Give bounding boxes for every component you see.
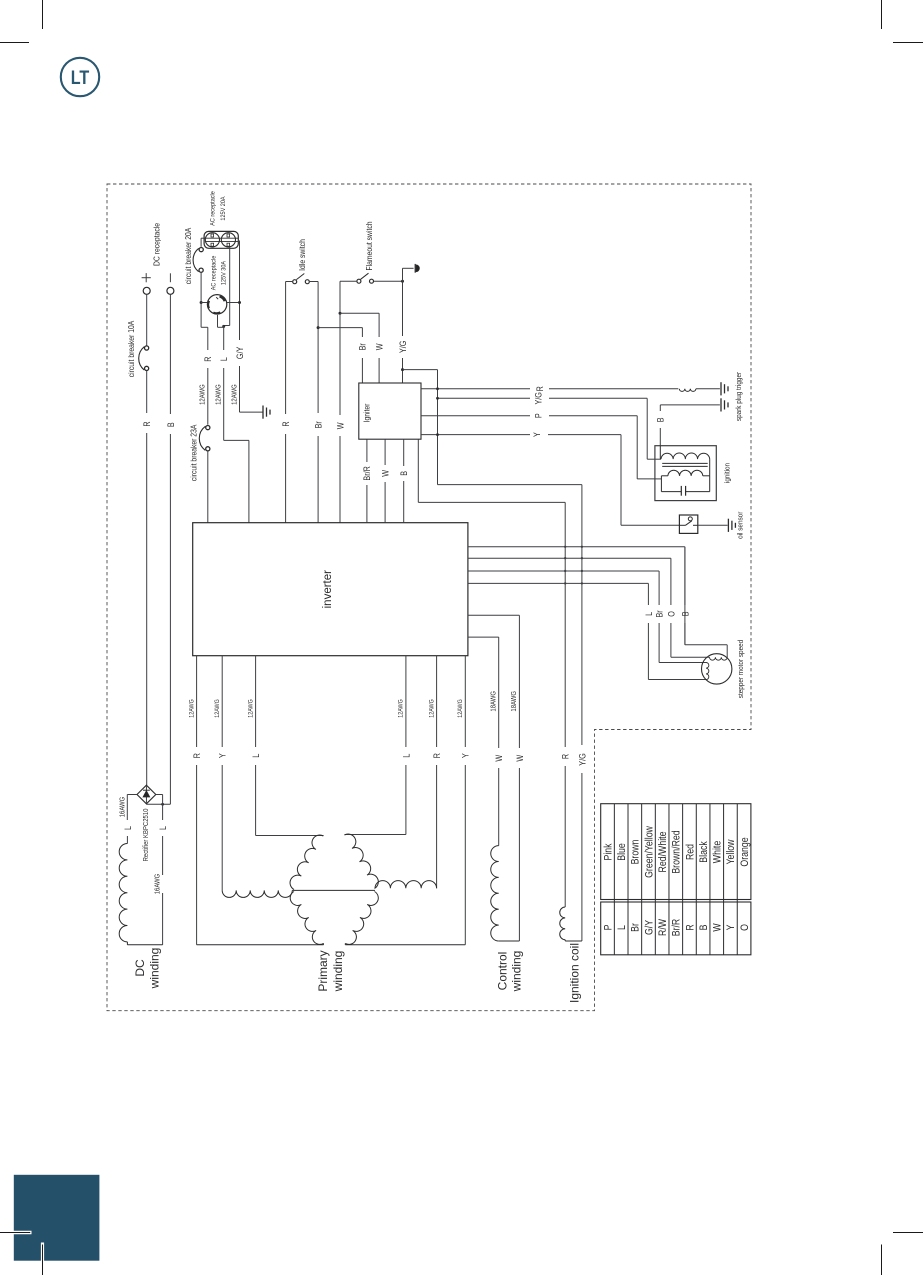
svg-text:B: B bbox=[166, 422, 176, 427]
wire Y: inverter to primary bus right bbox=[464, 656, 466, 699]
svg-text:R: R bbox=[192, 753, 202, 758]
minus terminal mark bbox=[169, 273, 171, 282]
wire BrR: igniter to inverter bbox=[366, 439, 368, 462]
svg-text:B: B bbox=[698, 925, 710, 931]
primary winding LL coil bbox=[290, 892, 323, 945]
spark plug trigger ground 2 bbox=[720, 398, 722, 411]
DC receptacle terminal R bbox=[143, 287, 150, 294]
wire R: inverter to primary right coil bbox=[436, 656, 438, 699]
crossing dots ignition wires bbox=[564, 546, 566, 548]
earth ground GY bbox=[262, 406, 264, 419]
wire B to stepper bbox=[468, 546, 685, 548]
wire B stepper label bbox=[684, 547, 686, 605]
svg-text:Red/White: Red/White bbox=[657, 832, 669, 873]
svg-text:Y: Y bbox=[461, 753, 471, 758]
svg-text:R: R bbox=[203, 356, 213, 361]
svg-text:L: L bbox=[158, 826, 168, 830]
wire: twist lock left terminal bbox=[201, 302, 207, 304]
svg-text:R: R bbox=[535, 386, 545, 391]
wire W: igniter to inverter bbox=[384, 439, 386, 465]
circuit breaker 20A bbox=[199, 248, 203, 252]
svg-text:circuit breaker 10A: circuit breaker 10A bbox=[127, 321, 137, 378]
circuit breaker 23A bbox=[206, 426, 210, 430]
svg-text:12AWG: 12AWG bbox=[199, 384, 207, 405]
svg-text:L: L bbox=[123, 826, 133, 830]
LT logo bbox=[61, 58, 99, 96]
wire R ignition-coil feed from igniter bottom bbox=[417, 439, 419, 502]
wire YG: to ignition transformer bbox=[438, 397, 531, 399]
wire W left: inverter to control winding bbox=[468, 636, 499, 638]
svg-text:Ignition coil: Ignition coil bbox=[567, 943, 581, 1003]
svg-text:L: L bbox=[219, 357, 229, 361]
wire R: inverter to primary bus left bbox=[196, 656, 198, 699]
primary bus left bbox=[197, 944, 324, 946]
primary winding center link bbox=[292, 889, 375, 891]
wire: duplex right outlet down to L bbox=[229, 248, 231, 326]
wire R: to ignition coil bbox=[564, 502, 566, 747]
svg-text:G/Y: G/Y bbox=[235, 346, 245, 359]
AC twist-lock receptacle 125V 30A bbox=[207, 295, 226, 314]
wire L: inverter to primary UL coil bbox=[255, 656, 257, 699]
svg-text:W: W bbox=[495, 754, 505, 761]
svg-text:R: R bbox=[561, 754, 571, 759]
svg-text:P: P bbox=[534, 413, 544, 418]
ignition capacitor bbox=[661, 491, 681, 493]
svg-text:Black: Black bbox=[698, 841, 710, 863]
rectifier KBPC2510 bbox=[137, 785, 156, 804]
svg-text:Pink: Pink bbox=[603, 843, 615, 860]
primary winding LR coil bbox=[345, 892, 378, 945]
wire L to stepper bbox=[468, 582, 649, 584]
primary winding right coil bbox=[375, 881, 437, 889]
svg-text:12AWG: 12AWG bbox=[215, 699, 222, 718]
svg-text:Primary: Primary bbox=[316, 950, 330, 991]
svg-text:Y: Y bbox=[725, 924, 737, 930]
svg-text:W: W bbox=[515, 754, 525, 761]
svg-text:12AWG: 12AWG bbox=[429, 699, 436, 718]
svg-text:B: B bbox=[656, 417, 666, 422]
crop mark top-right bbox=[881, 0, 883, 29]
inverter U2 bbox=[193, 523, 468, 656]
svg-text:AC receptacle: AC receptacle bbox=[211, 255, 217, 290]
svg-text:L: L bbox=[251, 753, 261, 757]
wire Br: idle switch right to inverter bbox=[310, 281, 318, 283]
ignition coil bbox=[560, 907, 565, 940]
svg-text:12AWG: 12AWG bbox=[215, 384, 223, 405]
spark plug trigger ground 1 bbox=[720, 382, 722, 395]
svg-text:winding: winding bbox=[510, 951, 524, 993]
wire L: inverter to primary UR coil bbox=[405, 656, 407, 699]
wire W right: inverter to control winding bbox=[468, 614, 520, 616]
control winding coil bbox=[491, 846, 499, 941]
wire: rectifier left vertex to DC winding left bbox=[127, 794, 137, 796]
svg-text:18AWG: 18AWG bbox=[511, 691, 519, 712]
svg-text:Yellow: Yellow bbox=[725, 839, 737, 865]
chassis ground bbox=[402, 268, 404, 281]
svg-text:winding: winding bbox=[331, 951, 345, 993]
svg-text:125V 20A: 125V 20A bbox=[221, 196, 227, 220]
svg-text:12AWG: 12AWG bbox=[189, 699, 196, 718]
svg-text:Rectifier KBPC2510: Rectifier KBPC2510 bbox=[143, 808, 151, 861]
wire: rectifier right vertex to DC winding right bbox=[156, 794, 163, 796]
svg-text:Y/G: Y/G bbox=[578, 753, 588, 765]
wire YG: to ignition coil bbox=[581, 485, 583, 745]
DC winding bottom link bbox=[127, 944, 162, 946]
wire R: igniter to spark plug trigger bbox=[421, 388, 530, 390]
blue corner square bbox=[14, 1175, 100, 1261]
svg-text:Br/R: Br/R bbox=[363, 466, 373, 481]
svg-text:O: O bbox=[739, 924, 751, 931]
svg-text:circuit breaker 23A: circuit breaker 23A bbox=[189, 425, 199, 482]
svg-text:B: B bbox=[399, 471, 409, 476]
svg-text:L: L bbox=[402, 753, 412, 757]
svg-text:LT: LT bbox=[71, 67, 90, 89]
svg-text:Br: Br bbox=[655, 610, 665, 617]
DC winding coil bbox=[119, 844, 127, 942]
primary winding UR coil bbox=[345, 834, 379, 888]
svg-text:Green/Yellow: Green/Yellow bbox=[644, 825, 656, 878]
wire R: DC + terminal to breaker 10A bbox=[146, 294, 148, 346]
wire: DC winding right bbox=[162, 795, 164, 821]
AC duplex receptacle 125V 20A bbox=[204, 231, 238, 248]
svg-text:125V 30A: 125V 30A bbox=[221, 261, 227, 285]
primary bus right bbox=[345, 944, 465, 946]
svg-text:18AWG: 18AWG bbox=[490, 691, 498, 712]
svg-text:spark plug trigger: spark plug trigger bbox=[736, 371, 744, 421]
ignition core bbox=[662, 462, 708, 464]
svg-text:12AWG: 12AWG bbox=[231, 384, 239, 405]
wire: flameout right to chassis ground junction bbox=[374, 280, 403, 282]
spark plug trigger inductor bbox=[679, 389, 696, 392]
wire B: igniter to inverter bbox=[403, 439, 405, 466]
svg-text:R: R bbox=[281, 421, 291, 426]
wire R: breaker 23A to inverter bbox=[207, 451, 209, 522]
svg-text:Br: Br bbox=[314, 421, 324, 428]
igniter U1 bbox=[359, 383, 421, 439]
svg-text:W: W bbox=[712, 923, 724, 932]
svg-text:Y/G: Y/G bbox=[534, 392, 544, 404]
svg-text:R: R bbox=[685, 924, 697, 930]
svg-text:16AWG: 16AWG bbox=[119, 797, 127, 818]
wire: breaker 20A to duplex receptacle bbox=[200, 238, 202, 247]
wire R jog below breaker 20A bbox=[201, 326, 208, 328]
oil sensor bbox=[679, 515, 697, 533]
svg-text:L: L bbox=[644, 611, 654, 615]
svg-text:Brown/Red: Brown/Red bbox=[671, 830, 683, 873]
wire GY: duplex to ground bbox=[239, 241, 241, 341]
svg-text:Br: Br bbox=[358, 343, 368, 350]
dashed diagram border bbox=[107, 184, 751, 1011]
svg-text:DC receptacle: DC receptacle bbox=[152, 223, 162, 266]
wire B: DC - terminal to rectifier, label B bbox=[169, 294, 171, 414]
svg-text:W: W bbox=[375, 343, 385, 350]
svg-text:G/Y: G/Y bbox=[644, 920, 656, 936]
oil sensor ground bbox=[698, 524, 728, 526]
svg-text:DC: DC bbox=[133, 959, 147, 977]
wire B: ignition coil to spark plug ground bbox=[659, 428, 661, 446]
idle switch bbox=[293, 280, 297, 284]
wire W: flameout left to inverter bbox=[340, 280, 356, 282]
wire YG: flameout junction to igniter bbox=[402, 281, 404, 336]
svg-text:Idle switch: Idle switch bbox=[297, 239, 307, 271]
svg-text:Br: Br bbox=[630, 922, 642, 931]
svg-text:Br/R: Br/R bbox=[671, 919, 683, 937]
DC receptacle terminal B bbox=[167, 287, 174, 294]
svg-text:L: L bbox=[616, 925, 628, 930]
primary winding left coil bbox=[222, 890, 292, 897]
svg-text:12AWG: 12AWG bbox=[458, 699, 465, 718]
wire Y: igniter to oil sensor bbox=[421, 434, 530, 436]
svg-text:Igniter: Igniter bbox=[362, 403, 372, 422]
wire W branch to igniter bbox=[340, 312, 379, 314]
primary winding UL coil bbox=[290, 835, 323, 889]
svg-text:R: R bbox=[432, 753, 442, 758]
svg-text:Y/G: Y/G bbox=[398, 341, 408, 353]
wire YG branch to ignition coil net bbox=[403, 369, 438, 371]
crop mark top-left bbox=[42, 0, 44, 29]
wire R: idle switch left to inverter bbox=[286, 281, 293, 283]
ignition primary coil bbox=[659, 446, 661, 459]
svg-text:R: R bbox=[143, 421, 153, 426]
wire: twist lock right terminal to GY bbox=[227, 302, 240, 304]
stepper motor bbox=[702, 654, 732, 684]
wire R: breaker 10A to rectifier, label R bbox=[146, 371, 148, 413]
svg-text:Brown: Brown bbox=[630, 840, 642, 865]
svg-text:inverter: inverter bbox=[322, 570, 334, 609]
wire Br branch to igniter bbox=[318, 327, 362, 329]
svg-text:Y: Y bbox=[218, 753, 228, 758]
svg-text:O: O bbox=[667, 611, 677, 617]
svg-text:16AWG: 16AWG bbox=[154, 874, 162, 895]
wire P: igniter to ignition transformer bbox=[421, 415, 530, 417]
wire O to stepper bbox=[468, 557, 671, 559]
svg-text:Flameout switch: Flameout switch bbox=[364, 221, 374, 270]
svg-text:Y: Y bbox=[532, 432, 542, 437]
wire R: breaker 20A down bbox=[200, 273, 202, 327]
svg-text:Red: Red bbox=[685, 844, 697, 860]
svg-text:Control: Control bbox=[495, 952, 509, 991]
wire color table bbox=[601, 804, 751, 900]
svg-text:Blue: Blue bbox=[616, 843, 628, 861]
wire: B to rectifier bottom vertex bbox=[146, 803, 170, 805]
svg-text:winding: winding bbox=[148, 948, 162, 990]
wire Y: inverter to primary left coil bbox=[221, 656, 223, 699]
svg-text:W: W bbox=[381, 470, 391, 477]
flameout switch bbox=[357, 279, 361, 283]
crop mark bottom-left bbox=[12, 1231, 32, 1234]
svg-text:White: White bbox=[712, 841, 724, 863]
crop mark bottom-right bbox=[893, 1232, 923, 1234]
ignition transformer bbox=[655, 446, 716, 501]
svg-text:B: B bbox=[681, 611, 691, 616]
svg-text:oil sensor: oil sensor bbox=[737, 511, 745, 539]
ignition secondary coil bbox=[655, 478, 662, 480]
svg-text:12AWG: 12AWG bbox=[398, 699, 405, 718]
svg-text:AC receptacle: AC receptacle bbox=[210, 191, 216, 226]
svg-text:W: W bbox=[336, 422, 346, 429]
svg-text:Orange: Orange bbox=[739, 837, 751, 866]
svg-text:12AWG: 12AWG bbox=[248, 699, 255, 718]
svg-text:ignition: ignition bbox=[724, 463, 732, 483]
svg-text:P: P bbox=[603, 925, 615, 931]
wire L: twist lock bottom to inverter bbox=[217, 315, 219, 327]
wire Br to stepper bbox=[468, 570, 659, 572]
plus terminal mark bbox=[142, 277, 151, 279]
svg-text:circuit breaker 20A: circuit breaker 20A bbox=[183, 228, 193, 285]
circuit breaker 10A bbox=[145, 346, 149, 350]
svg-text:stepper motor speed: stepper motor speed bbox=[738, 640, 746, 699]
svg-text:R/W: R/W bbox=[657, 918, 669, 936]
